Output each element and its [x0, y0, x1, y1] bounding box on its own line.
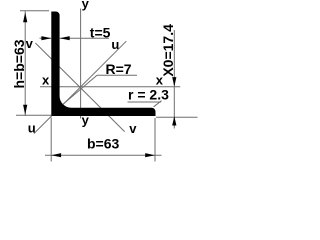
svg-text:v: v: [26, 36, 34, 51]
svg-text:h=b=63: h=b=63: [11, 39, 27, 88]
svg-text:b=63: b=63: [87, 136, 120, 152]
svg-text:y: y: [82, 0, 90, 11]
dimension x0 line upper: [173, 30, 175, 129]
dimension t=5 right line: [60, 37, 109, 39]
svg-text:r = 2.3: r = 2.3: [128, 87, 169, 103]
arrow t right: [60, 36, 70, 40]
svg-text:y: y: [82, 112, 90, 127]
arrow x0 down: [172, 77, 176, 87]
arrow x0 up: [172, 116, 176, 126]
R=7 underline: [97, 74, 137, 76]
arrow h bottom: [23, 105, 27, 115]
dimension t=5 left line: [40, 37, 52, 39]
arrow t left: [41, 36, 51, 40]
dimension b=63 line: [45, 154, 162, 156]
dimension b right extension: [154, 118, 156, 162]
R=7 leader: [63, 75, 97, 104]
y axis: [80, 9, 82, 119]
dimension h bottom extension: [16, 114, 51, 116]
svg-text:t=5: t=5: [90, 25, 111, 41]
arrow h top: [23, 12, 27, 22]
svg-text:X0=17.4: X0=17.4: [160, 24, 176, 77]
dimension h=b=63 line: [24, 11, 26, 116]
svg-text:v: v: [129, 121, 137, 136]
dimension h top extension: [20, 10, 49, 12]
u axis: [34, 41, 126, 133]
x axis: [40, 86, 180, 88]
svg-text:R=7: R=7: [106, 61, 132, 77]
dimension x0 bottom extension: [156, 116, 198, 118]
svg-text:u: u: [111, 37, 119, 52]
svg-text:x: x: [42, 72, 50, 87]
dimension b left extension: [50, 118, 52, 162]
arrow b left: [51, 153, 61, 157]
svg-text:u: u: [28, 121, 36, 136]
arrow b right: [145, 153, 155, 157]
r=2.3 underline: [128, 101, 162, 103]
r=2.3 leader: [154, 101, 162, 107]
v axis: [35, 43, 124, 132]
angle profile cross-section: [51, 12, 155, 117]
